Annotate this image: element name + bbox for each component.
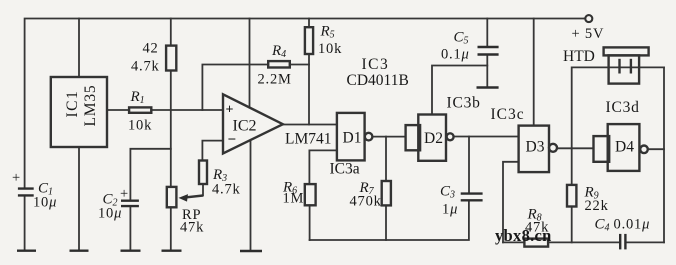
wire R9 top from D3-D4 net xyxy=(571,148,573,185)
ground bar under C5 xyxy=(477,86,499,88)
wire R2 top drop from rail xyxy=(170,19,172,46)
capacitor C4 left plate xyxy=(619,234,621,250)
wire op-amp minus input to R3 xyxy=(202,141,223,161)
wire R8 to C4 with R9 junction xyxy=(548,241,619,243)
buzzer HTD top cap xyxy=(604,47,649,55)
+5V terminal circle xyxy=(585,15,592,22)
gate D4 output bubble xyxy=(640,146,648,154)
wire IC1 bottom to ground xyxy=(78,147,80,250)
wire R1 to op-amp plus input xyxy=(151,109,223,111)
wire HTD left leg down to D3-D4 net xyxy=(572,67,639,148)
wire R5 bottom to op-amp output node xyxy=(308,54,310,125)
ground bar under C2 xyxy=(121,249,141,251)
gate D1 output bubble xyxy=(365,133,373,141)
svg-text:IC3a: IC3a xyxy=(330,161,360,178)
capacitor C1 top plate xyxy=(18,187,34,189)
resistor R2 body (42 4.7k) xyxy=(166,46,176,71)
svg-text:D4: D4 xyxy=(615,139,634,156)
wire HTD right to right vertical xyxy=(639,66,664,68)
svg-text:CD4011B: CD4011B xyxy=(347,72,409,89)
svg-text:+: + xyxy=(120,186,129,202)
resistor R9 body xyxy=(567,185,576,207)
svg-text:+: + xyxy=(12,170,21,186)
capacitor C5 top plate xyxy=(478,46,499,48)
svg-text:4.7k: 4.7k xyxy=(212,182,241,198)
gate D2 output bubble xyxy=(447,133,454,140)
resistor R7 body xyxy=(382,181,391,205)
capacitor C2 bottom plate xyxy=(121,205,139,207)
capacitor C2 top plate xyxy=(121,199,139,201)
svg-text:IC2: IC2 xyxy=(233,118,257,135)
svg-text:10μ: 10μ xyxy=(98,206,122,222)
svg-text:10k: 10k xyxy=(318,41,342,57)
wire D2 output to D3 input xyxy=(454,136,519,138)
wire D3 lower input feedback leg xyxy=(503,162,519,243)
svg-text:22k: 22k xyxy=(585,198,609,214)
svg-text:C40.01μ: C40.01μ xyxy=(595,217,651,234)
svg-text:+ 5V: + 5V xyxy=(572,26,605,42)
svg-text:IC3d: IC3d xyxy=(606,99,640,116)
wire RP bottom to ground xyxy=(170,207,172,250)
svg-text:LM741: LM741 xyxy=(285,131,332,148)
svg-text:10μ: 10μ xyxy=(33,195,57,211)
wire D1 output to D2 input xyxy=(373,136,406,138)
svg-text:LM35: LM35 xyxy=(82,85,99,127)
wire R4 feedback left leg down to plus input xyxy=(202,65,268,111)
wire bottom rail R6 to C3 xyxy=(310,202,469,240)
buzzer HTD body box xyxy=(609,55,640,83)
svg-text:10k: 10k xyxy=(128,118,152,134)
svg-text:C3: C3 xyxy=(440,184,455,201)
wire D3 top pin to rail xyxy=(533,19,535,126)
resistor R5 body xyxy=(305,27,313,54)
gate D1 IC3a box xyxy=(337,113,365,160)
wire C3 top drop from D2-D3 net xyxy=(468,137,470,193)
capacitor C4 right plate xyxy=(624,234,626,250)
svg-text:470k: 470k xyxy=(350,194,382,210)
resistor R8 body xyxy=(524,239,548,247)
gate D3 IC3c box xyxy=(519,126,549,173)
wire feedback to R8 xyxy=(503,241,524,243)
potentiometer RP wiper arrow xyxy=(182,196,203,198)
wire op-amp V+ pin from rail to triangle top edge xyxy=(249,19,251,108)
IC1 LM35 box xyxy=(51,77,107,147)
svg-text:IC3: IC3 xyxy=(362,56,390,73)
RP wiper arrowhead xyxy=(179,194,189,202)
gate D3 output bubble xyxy=(549,144,557,152)
svg-text:0.1μ: 0.1μ xyxy=(441,47,470,63)
wire op-amp output to gate D1 input xyxy=(283,124,337,126)
buzzer HTD inner electrode right xyxy=(630,59,632,74)
svg-text:D1: D1 xyxy=(343,130,362,147)
resistor R3 body xyxy=(199,161,207,185)
ground bar under RP xyxy=(162,249,182,251)
capacitor C3 bottom plate xyxy=(461,199,483,201)
wire C1 bottom to ground xyxy=(24,197,26,250)
wire IC1 top supply drop xyxy=(78,19,80,78)
wire R6 bottom to bottom rail xyxy=(309,205,311,240)
wire rail to +5V terminal xyxy=(583,18,585,20)
wire C5 top drop from rail xyxy=(486,19,488,46)
svg-text:4.7k: 4.7k xyxy=(131,59,160,75)
svg-text:42: 42 xyxy=(143,41,159,57)
capacitor C3 top plate xyxy=(461,192,483,194)
svg-text:HTD: HTD xyxy=(563,48,595,65)
wire D4 output to right vertical xyxy=(648,148,664,150)
buzzer HTD inner electrode left xyxy=(618,59,620,74)
capacitor C1 bottom plate xyxy=(18,194,34,196)
wire D3 output to D4 input xyxy=(557,147,593,149)
resistor R1 body xyxy=(129,107,151,112)
gate D4 IC3d box xyxy=(608,124,640,171)
potentiometer RP body xyxy=(167,187,177,207)
resistor R4 body xyxy=(268,61,290,67)
svg-text:2.2M: 2.2M xyxy=(258,72,292,88)
gate D2 input box xyxy=(406,125,421,150)
wire R7 bottom to bottom rail xyxy=(385,205,387,240)
wire D1 lower input to R6 xyxy=(309,150,337,184)
svg-text:R1: R1 xyxy=(130,89,145,106)
wire right vertical HTD right to C4 xyxy=(663,67,665,242)
wire R2 bottom to RP top (through R1 node) xyxy=(170,71,172,187)
svg-text:IC3b: IC3b xyxy=(447,95,481,112)
op-amp IC2 triangle xyxy=(223,94,283,153)
ground bar under IC1 xyxy=(70,249,89,251)
svg-text:R4: R4 xyxy=(271,43,286,60)
ground bar under C1 xyxy=(17,249,36,251)
wire op-amp V- pin to ground xyxy=(250,140,252,250)
wire C5 bottom to its ground xyxy=(486,56,488,87)
svg-text:ybx8.cn: ybx8.cn xyxy=(495,226,552,245)
svg-text:C5: C5 xyxy=(454,30,469,47)
wire D2 top pin to C5 node xyxy=(432,66,487,115)
wire C2 branch from divider line xyxy=(130,149,170,200)
svg-text:47k: 47k xyxy=(180,220,204,236)
svg-text:IC1: IC1 xyxy=(64,90,81,118)
wire IC1 output to R1 xyxy=(107,109,129,111)
capacitor C5 bottom plate xyxy=(478,53,499,55)
svg-text:R5: R5 xyxy=(320,24,335,41)
ground bar under op-amp xyxy=(240,250,262,252)
wire C2 bottom to ground xyxy=(129,207,131,250)
gate D2 IC3b box xyxy=(418,115,446,161)
wire R3 bottom jog xyxy=(202,184,204,196)
svg-text:IC3c: IC3c xyxy=(491,106,525,123)
gate D4 input box xyxy=(594,136,610,162)
svg-text:D2: D2 xyxy=(424,130,443,147)
wire R7 top drop from D1-D2 net xyxy=(385,137,387,181)
wire top +5V rail xyxy=(25,19,585,188)
svg-text:1μ: 1μ xyxy=(442,202,458,218)
wire R5 top drop from rail xyxy=(308,19,310,28)
resistor R6 body xyxy=(305,184,316,205)
svg-text:1M: 1M xyxy=(283,191,305,207)
svg-text:D3: D3 xyxy=(526,139,545,156)
svg-text:+: + xyxy=(226,103,234,118)
wire R4 right lead to R5 line xyxy=(290,64,309,66)
wire C4 right plate to right vertical xyxy=(626,241,664,243)
wire R9 bottom to R8-C4 net xyxy=(571,207,573,243)
